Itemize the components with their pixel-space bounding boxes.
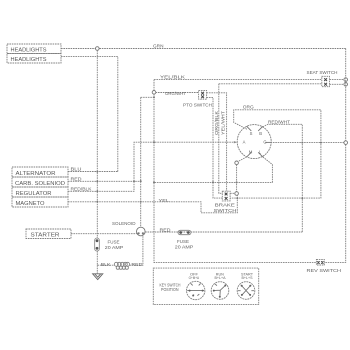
svg-text:G: G — [263, 140, 266, 145]
wire brake upper pin to M node — [230, 192, 235, 194]
key chart RUN circle — [211, 273, 229, 300]
arrowhead at ignition A — [234, 141, 237, 143]
svg-text:B: B — [259, 131, 262, 136]
svg-text:A: A — [243, 140, 246, 145]
terminal M tick and label — [247, 149, 253, 157]
junction BLU at left vertical — [96, 171, 98, 173]
svg-text:B+L+A: B+L+A — [215, 276, 227, 280]
brake switch connector — [222, 191, 230, 201]
wire G to right bus — [271, 142, 345, 144]
wire seat lower horizontal — [219, 83, 322, 85]
node M terminal — [235, 161, 239, 165]
node brake switch upper pin — [235, 192, 239, 196]
wire main left vertical — [96, 50, 98, 238]
headlights box 1 — [7, 44, 61, 54]
wire YEL/BLK to seat switch — [154, 79, 322, 81]
svg-text:YEL/WHT: YEL/WHT — [220, 110, 225, 135]
wire magneto YEL run — [68, 195, 237, 212]
fuse horizontal — [178, 230, 191, 234]
svg-text:RED: RED — [71, 176, 83, 181]
svg-text:CARB. SOLENIOD: CARB. SOLENIOD — [15, 181, 65, 187]
seat switch connector — [322, 76, 330, 86]
svg-text:SWITCH: SWITCH — [214, 208, 237, 213]
svg-text:ORG/WHT: ORG/WHT — [165, 91, 186, 96]
svg-text:BLU: BLU — [71, 166, 82, 171]
svg-text:RED: RED — [131, 262, 143, 267]
wire PTO right down to brake switch — [207, 93, 227, 191]
junction YEL at solenoid feed — [140, 201, 142, 203]
svg-text:SOLENOID: SOLENOID — [112, 221, 136, 226]
junction brake lower wire at RED/WHT vertical — [301, 197, 303, 199]
node on GRN wire — [96, 47, 100, 51]
svg-text:REV SWITCH: REV SWITCH — [307, 268, 342, 273]
wire PTO lower pin down to brake switch — [207, 97, 223, 198]
rev switch connector — [316, 259, 324, 265]
wire ORG/WHT to PTO switch — [156, 92, 199, 94]
terminal B tick and label — [258, 126, 263, 136]
headlights box 2 — [7, 54, 61, 64]
wire to ground — [96, 265, 98, 273]
junction bus at A wire — [153, 141, 155, 143]
wire vertical B solenoid feed — [140, 97, 142, 227]
solenoid — [137, 227, 146, 236]
svg-text:M: M — [249, 149, 253, 154]
svg-text:RED/BLK: RED/BLK — [71, 186, 93, 191]
svg-text:ALTERNATOR: ALTERNATOR — [16, 171, 56, 177]
svg-text:L: L — [259, 149, 262, 154]
carb solenoid box — [12, 177, 68, 187]
ground symbol — [93, 274, 103, 280]
coil symbol — [114, 262, 129, 269]
junction L wire at PTO vertical — [212, 181, 214, 183]
ignition switch circle — [237, 125, 271, 159]
wire headlights2 to BLU junction — [61, 56, 118, 171]
svg-text:FUSE: FUSE — [108, 240, 120, 245]
wire RED/WHT from B — [263, 124, 303, 232]
svg-text:S: S — [250, 131, 253, 136]
wire L to bus lower — [154, 157, 272, 183]
starter box — [26, 229, 71, 239]
wire seat switch lower right pin to bus — [330, 83, 345, 85]
svg-text:YEL/BLK: YEL/BLK — [160, 74, 186, 79]
node seat upper pin on right bus — [344, 78, 348, 82]
terminal S tick and label — [247, 126, 253, 136]
wire M diagonal — [238, 157, 247, 162]
wire RED carb solenoid — [68, 180, 141, 182]
node bus ORG/WHT branch — [152, 91, 156, 95]
svg-text:HEADLIGHTS: HEADLIGHTS — [11, 57, 48, 63]
wire coil to solenoid right terminal — [130, 234, 143, 265]
key chart OFF circle — [187, 272, 205, 299]
wire starter to solenoid — [71, 233, 137, 235]
svg-text:SEAT SWITCH: SEAT SWITCH — [307, 70, 338, 75]
terminal L tick and label — [258, 149, 263, 157]
junction G wire at ORG vertical — [320, 142, 322, 144]
wire seat switch upper right pin to bus — [330, 79, 345, 81]
junction bus at L wire — [153, 181, 155, 183]
terminal G tick and label — [263, 140, 270, 145]
wire GRN headlights to right bus — [61, 48, 346, 50]
svg-text:BLK: BLK — [101, 262, 112, 267]
svg-text:RED/WHT: RED/WHT — [268, 119, 290, 124]
junction RED/BLK at left vertical — [96, 190, 98, 192]
node seat lower pin on right bus — [344, 83, 348, 87]
junction RED at left vertical — [96, 180, 98, 182]
svg-text:REGULATOR: REGULATOR — [16, 191, 52, 197]
svg-text:20 AMP: 20 AMP — [175, 245, 194, 250]
svg-text:GRN: GRN — [153, 44, 164, 49]
main bus vertical — [154, 80, 316, 263]
svg-text:BRAKE: BRAKE — [215, 203, 235, 208]
wire ORG to rev switch — [230, 110, 321, 198]
svg-text:ORG/BLK: ORG/BLK — [214, 111, 219, 135]
wire RED/BLK regulator — [68, 181, 134, 191]
magneto box — [12, 197, 68, 207]
junction brake lower wire at YEL return — [236, 197, 238, 199]
junction RED node A — [133, 180, 135, 182]
svg-text:FUSE: FUSE — [177, 239, 189, 244]
junction G wire at RED/WHT vertical — [301, 142, 303, 144]
svg-text:STARTER: STARTER — [31, 233, 60, 239]
svg-text:PTO SWITCH: PTO SWITCH — [183, 102, 212, 107]
svg-text:B+L+S: B+L+S — [242, 276, 254, 280]
wire B-top to bus — [141, 96, 154, 98]
key switch chart box — [153, 268, 258, 305]
node G wire on right bus — [344, 141, 348, 145]
right bus vertical — [324, 49, 345, 263]
key chart START circle — [237, 273, 255, 300]
svg-text:ORG: ORG — [243, 104, 254, 109]
regulator box — [12, 187, 68, 197]
svg-text:MAGNETO: MAGNETO — [16, 201, 45, 207]
svg-text:G+M+A: G+M+A — [189, 276, 200, 280]
wire below fuse to BLK node — [97, 251, 115, 265]
wire solenoid to RED/WHT vertical — [145, 231, 302, 233]
alternator box — [12, 167, 68, 177]
fuse vertical — [95, 238, 100, 251]
svg-text:20 AMP: 20 AMP — [105, 245, 124, 250]
junction M vertical at L wire — [236, 181, 238, 183]
wire vertical A feed to ignition — [134, 142, 236, 181]
wire seat lower feed down to brake switch — [219, 84, 223, 194]
svg-text:RED: RED — [160, 227, 172, 232]
junction RED node B — [140, 180, 142, 182]
svg-text:POSITION: POSITION — [161, 287, 179, 292]
svg-text:HEADLIGHTS: HEADLIGHTS — [11, 47, 48, 53]
PTO switch connector — [199, 90, 207, 99]
junction YEL at left vertical — [96, 201, 98, 203]
svg-text:YEL.: YEL. — [159, 198, 171, 203]
wire M vertical to brake switch — [236, 165, 238, 192]
wire BLU alternator — [68, 171, 118, 173]
junction bus at solenoid-feed tap — [153, 96, 155, 98]
